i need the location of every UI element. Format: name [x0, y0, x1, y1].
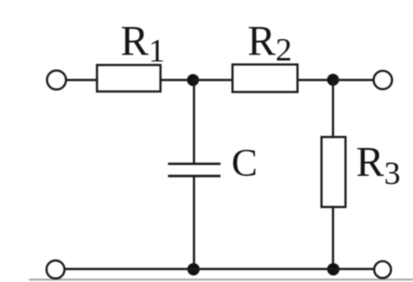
resistor R3 [322, 137, 346, 207]
capacitor C bottom plate [168, 175, 221, 177]
wire (bottom rail) [65, 268, 374, 270]
wire (R3 down to bottom rail) [332, 207, 334, 269]
wire [161, 79, 194, 81]
svg-text:R3: R3 [356, 140, 401, 192]
svg-text:R2: R2 [248, 19, 293, 69]
wire [193, 79, 233, 81]
input terminal (top left) [47, 71, 66, 90]
ground terminal (bottom left) [47, 261, 65, 279]
capacitor C top plate [168, 163, 221, 165]
resistor R2 [233, 65, 298, 93]
wire (node A down to capacitor) [193, 80, 195, 163]
wire [333, 79, 374, 81]
node junction A [187, 74, 199, 86]
ground terminal (bottom right) [374, 261, 391, 278]
svg-text:R1: R1 [121, 19, 166, 69]
wire (capacitor down to bottom rail) [193, 176, 195, 269]
node junction D [327, 263, 339, 275]
resistor R1 [97, 65, 161, 92]
svg-text:C: C [232, 142, 258, 185]
wire (node B down to R3) [332, 80, 334, 137]
node junction B [327, 74, 339, 86]
wire [67, 79, 98, 81]
wire [298, 79, 334, 81]
node junction C [187, 263, 199, 275]
output terminal (top right) [374, 71, 392, 89]
